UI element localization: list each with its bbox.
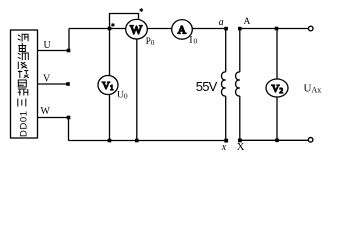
wire bottom bus primary (69, 140, 227, 142)
wire W riser to bottom bus (68, 118, 70, 141)
label asterisk wattmeter voltage terminal (140, 8, 143, 12)
node junction W bottom (135, 139, 139, 143)
transformer primary winding (221, 72, 225, 96)
label three-phase four-wire AC source (drawn glyphs) (18, 34, 29, 107)
交 rotated (18, 62, 27, 70)
wire W stub (38, 117, 69, 119)
wattmeter W (126, 19, 148, 39)
wire wattmeter voltage drop (136, 39, 138, 141)
terminal bottom right (308, 138, 313, 143)
node U terminal dot (67, 49, 71, 53)
node W terminal dot (67, 116, 71, 120)
node junction V1 bottom (108, 139, 112, 143)
wire V2 lower (276, 97, 278, 140)
wire top main line (69, 28, 226, 30)
三 rotated: three vertical strokes (18, 99, 26, 107)
电 rotated (18, 43, 26, 52)
node X corner dot (238, 139, 242, 143)
node V terminal dot (66, 82, 70, 86)
svg-text:V: V (43, 74, 51, 85)
svg-text:A: A (178, 23, 187, 37)
wire secondary bottom bus (240, 139, 308, 141)
power source box DD01 (11, 30, 38, 138)
node junction V2 bottom (275, 139, 279, 143)
wire secondary top line (240, 28, 308, 30)
svg-text:I0: I0 (189, 35, 197, 46)
wire U stub (38, 50, 69, 52)
流 rotated (18, 52, 29, 60)
node A corner dot (238, 27, 242, 31)
svg-text:UAx: UAx (304, 83, 322, 95)
线 rotated (18, 70, 29, 78)
wire V stub (38, 83, 69, 85)
svg-text:DD01: DD01 (19, 110, 30, 137)
svg-text:x: x (221, 142, 227, 153)
wire transformer secondary lower (239, 96, 241, 140)
wire transformer secondary upper (239, 29, 241, 73)
wire U riser (68, 29, 70, 51)
transformer secondary winding (236, 72, 240, 96)
voltmeter V1 (98, 76, 118, 95)
wire V1 lower (109, 95, 111, 141)
svg-text:W: W (41, 106, 51, 117)
四 rotated (18, 80, 26, 87)
svg-text:X: X (237, 141, 245, 153)
label asterisk wattmeter line terminal (111, 23, 114, 27)
svg-text:P0: P0 (146, 36, 155, 47)
svg-text:a: a (219, 17, 224, 28)
svg-text:U0: U0 (117, 91, 128, 101)
svg-text:A: A (244, 17, 251, 27)
wire transformer primary upper (225, 29, 227, 73)
node x corner dot (224, 139, 228, 143)
svg-text:U: U (44, 40, 52, 51)
node a corner dot (224, 27, 228, 31)
wire wattmeter voltage coil loop (110, 14, 139, 29)
相 rotated (18, 89, 29, 96)
ammeter A (172, 20, 193, 40)
svg-text:55V: 55V (196, 79, 218, 94)
wire transformer primary lower (225, 96, 227, 141)
node junction V2 top (275, 27, 279, 31)
voltmeter V2 (266, 79, 288, 97)
svg-text:W: W (130, 22, 143, 37)
terminal top right (308, 26, 313, 31)
wire V1 riser (109, 29, 111, 77)
node junction wattmeter voltage tap (108, 27, 112, 31)
wire V2 riser (276, 29, 278, 80)
源 rotated (18, 34, 29, 42)
